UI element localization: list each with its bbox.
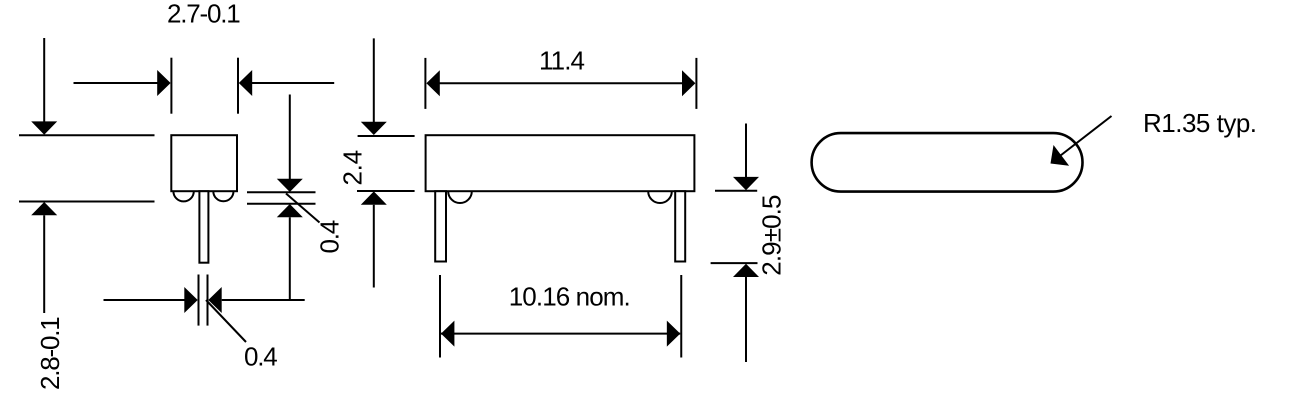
dim 0.4 bead: upper extension line bbox=[247, 191, 316, 193]
dim 2.8-0.1: lower dim line bbox=[43, 215, 45, 313]
left view: lead (side view) bbox=[199, 191, 208, 263]
svg-text:2.7-0.1: 2.7-0.1 bbox=[167, 0, 240, 29]
front view: left lead bbox=[435, 191, 446, 261]
dim 0.4 lead: left dim line bbox=[104, 299, 186, 301]
svg-text:2.4: 2.4 bbox=[338, 150, 368, 185]
svg-text:0.4: 0.4 bbox=[315, 220, 345, 253]
dim 2.7-0.1: left arrowhead bbox=[157, 70, 170, 96]
left view: right glass bead arc bbox=[213, 191, 233, 201]
dim 2.7-0.1: right dim line bbox=[252, 82, 334, 84]
dim 0.4 lead: right arrowhead bbox=[208, 287, 221, 313]
dim 2.8-0.1: upper dim line bbox=[43, 38, 45, 122]
dim 11.4: dim line bbox=[439, 82, 682, 84]
dim 11.4: right arrowhead bbox=[682, 70, 695, 96]
dim 2.4: down arrowhead bbox=[361, 122, 387, 135]
top view: stadium outline bbox=[812, 133, 1083, 192]
dim 10.16: right extension line bbox=[680, 275, 682, 358]
dim 10.16: left arrowhead bbox=[441, 321, 454, 347]
left view: left glass bead arc bbox=[173, 191, 193, 201]
dim 2.9±0.5: upper dim line bbox=[745, 124, 747, 178]
dim 11.4: left arrowhead bbox=[426, 70, 439, 96]
dim 0.4 lead: right dim line bbox=[222, 299, 305, 301]
front view: crystal body outline bbox=[426, 135, 695, 191]
dim 2.8-0.1: down arrowhead bbox=[31, 121, 57, 134]
dim 0.4 bead: down arrowhead bbox=[277, 179, 303, 192]
dim 2.4: upper extension line bbox=[358, 135, 415, 137]
dim 2.9±0.5: up arrowhead bbox=[733, 264, 759, 277]
dim 2.4: upper dim line bbox=[373, 38, 375, 122]
dim 0.4 bead: lower extension line bbox=[247, 203, 316, 205]
front view: right glass bead arc bbox=[648, 191, 672, 203]
left view: crystal body outline bbox=[171, 135, 237, 191]
dim 0.4 lead: right extension line bbox=[207, 275, 209, 326]
dim 2.4: lower extension line bbox=[357, 190, 415, 192]
dim 11.4: left extension line bbox=[424, 58, 426, 109]
dim 10.16: left extension line bbox=[439, 275, 441, 358]
dim 0.4 lead: left arrowhead bbox=[184, 287, 197, 313]
svg-text:11.4: 11.4 bbox=[539, 46, 585, 76]
dim 2.9±0.5: down arrowhead bbox=[733, 177, 759, 190]
dim 10.16: dim line bbox=[441, 333, 680, 335]
svg-text:10.16 nom.: 10.16 nom. bbox=[509, 282, 630, 312]
dim 10.16: right arrowhead bbox=[667, 321, 680, 347]
dim 2.8-0.1: top extension line bbox=[19, 134, 155, 136]
dim 2.9±0.5: lower dim line bbox=[745, 277, 747, 362]
front view: left glass bead arc bbox=[448, 191, 472, 203]
svg-text:0.4: 0.4 bbox=[244, 341, 277, 371]
dim 2.8-0.1: bottom extension line bbox=[19, 201, 155, 203]
dim 2.7-0.1: right extension line bbox=[237, 58, 239, 114]
top view: leader arrowhead bbox=[1051, 145, 1070, 166]
dim 11.4: right extension line bbox=[695, 58, 697, 109]
dim 2.9±0.5: lower extension line bbox=[711, 262, 758, 264]
dim 0.4 bead: upper dim line bbox=[289, 95, 291, 180]
svg-text:2.9±0.5: 2.9±0.5 bbox=[757, 195, 787, 276]
dim 2.7-0.1: left dim line bbox=[74, 82, 159, 84]
dim 2.7-0.1: right arrowhead bbox=[239, 70, 252, 96]
dim 0.4 lead: left extension line bbox=[198, 275, 200, 326]
svg-text:2.8-0.1: 2.8-0.1 bbox=[35, 317, 65, 390]
dim 0.4 lead: leader line bbox=[206, 300, 246, 342]
dim 0.4 bead: up arrowhead bbox=[277, 204, 303, 217]
top view: leader line bbox=[1056, 116, 1112, 159]
front view: right lead bbox=[675, 191, 685, 261]
dim 0.4 bead: leader slash bbox=[286, 194, 320, 223]
svg-text:R1.35 typ.: R1.35 typ. bbox=[1143, 108, 1257, 138]
dim 2.9±0.5: upper extension line bbox=[715, 190, 757, 192]
dim 2.8-0.1: up arrowhead bbox=[31, 202, 57, 215]
dim 0.4 bead: lower dim line bbox=[289, 217, 291, 300]
dim 2.7-0.1: left extension line bbox=[170, 58, 172, 114]
dim 2.4: lower dim line bbox=[373, 205, 375, 288]
dim 2.4: up arrowhead bbox=[361, 191, 387, 204]
